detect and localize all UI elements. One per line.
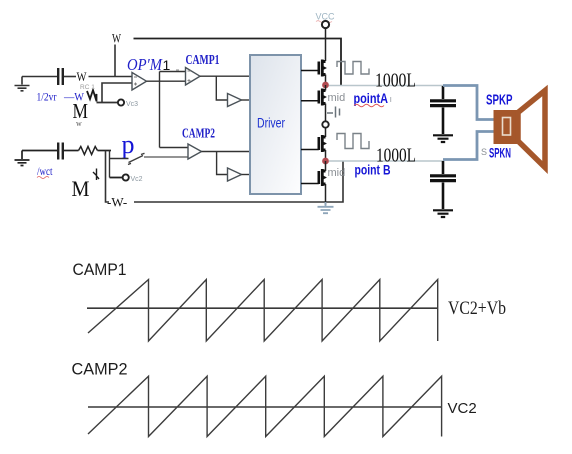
speaker SP1 horn [518, 91, 545, 168]
transistor Q2 (low side A) [301, 89, 327, 106]
wire U1 output down to CAMP2 [159, 72, 161, 148]
svg-text:ı: ı [390, 94, 393, 104]
resistor R2 zigzag [79, 147, 98, 155]
wire node down to -W- rail [106, 151, 110, 203]
ground CB [433, 210, 453, 217]
capacitor CA [430, 86, 456, 134]
svg-text:Driver: Driver [257, 116, 285, 131]
svg-text:W: W [77, 69, 88, 84]
svg-text:CAMP1: CAMP1 [186, 53, 220, 68]
transistor Q4 (low side B) [301, 169, 327, 186]
wire branch down to buffer B1 [216, 76, 227, 100]
buffer B2 [228, 168, 242, 181]
comparator CAMP2 [188, 144, 202, 159]
wire -W- rail to point B vertical [134, 161, 343, 202]
wire Q2 source down [325, 104, 327, 122]
svg-text:Vc3: Vc3 [126, 101, 138, 108]
wire from top W down to U1 input node [114, 45, 116, 77]
svg-text:VC2: VC2 [448, 400, 477, 417]
wire VCC stem [325, 29, 327, 62]
wire Q4 source to ground [325, 184, 327, 205]
wire point B net [329, 160, 443, 162]
comparator CAMP1 [186, 68, 201, 86]
svg-text:VC2+Vb: VC2+Vb [448, 298, 506, 319]
wire switch to CAMP2 lower input [144, 156, 188, 158]
wire C2 to resistor R2 [64, 150, 79, 152]
terminal mid supply [322, 121, 328, 127]
ground bridge (blue) [318, 202, 334, 213]
svg-text:RC 1: RC 1 [80, 84, 95, 91]
ground G2 (lower input) [15, 151, 30, 166]
capacitor C2 [58, 143, 63, 160]
wire branch down to buffer B2 [217, 152, 228, 175]
wire U1 + input elbow [102, 83, 132, 103]
svg-text:Vc2: Vc2 [131, 176, 143, 183]
svg-text:pointA: pointA [354, 90, 389, 106]
svg-text:-W-: -W- [107, 195, 127, 210]
wire to terminal Vc2 [110, 177, 123, 179]
red squiggle under pointA [354, 104, 384, 107]
waveform CAMP2 sawtooth [88, 376, 442, 436]
wire node to switch / Vc2 branch [110, 151, 129, 178]
CAMP1 polarity marks [176, 70, 191, 82]
capacitor C1 [58, 68, 63, 85]
transistor Q1 (high side A) [301, 60, 327, 77]
svg-text:SPKN: SPKN [489, 145, 511, 161]
red squiggle under /wct [37, 177, 49, 179]
wire point A net [329, 85, 443, 87]
wire Q2 drain to node A [325, 85, 327, 91]
wire terminal to Q3 [325, 128, 327, 137]
svg-text:CAMP2: CAMP2 [72, 361, 128, 379]
speaker SP1 slot [503, 118, 511, 136]
terminal Vc2 [123, 174, 129, 180]
wire ground G1 to capacitor C1 [22, 76, 57, 78]
ground G1 (upper input) [15, 77, 30, 91]
op-amp U1 input polarity marks [134, 77, 137, 86]
node A red junction [322, 82, 329, 89]
svg-text:p: p [122, 130, 135, 159]
wire Q4 drain to node B [325, 161, 327, 171]
square wave icon A [337, 62, 369, 75]
svg-text:1: 1 [163, 57, 171, 73]
wire W to op-amp U1 inverting input [89, 76, 133, 78]
waveform CAMP1 baseline [87, 307, 438, 309]
wire B1 to Driver [242, 99, 251, 101]
svg-text:SPKP: SPKP [486, 92, 513, 109]
wire top rail from W to bridge [134, 39, 342, 86]
terminal Vc3 [118, 99, 124, 105]
wire Q1 source to mid node A [325, 75, 327, 86]
transistor Q3 (high side B) [301, 135, 327, 152]
svg-text:mid: mid [328, 167, 346, 179]
waveform CAMP1 sawtooth [88, 280, 438, 342]
wire CAMP1 output to Driver [200, 75, 250, 77]
svg-text:1000L: 1000L [375, 70, 416, 92]
op-amp U1 (OP M1) [132, 73, 147, 91]
Driver block U2 [250, 55, 301, 194]
speaker SP1 body [494, 110, 518, 144]
svg-text:CAMP2: CAMP2 [182, 127, 215, 142]
terminal VCC [322, 21, 329, 28]
svg-text:CAMP1: CAMP1 [73, 261, 127, 279]
wire C1 to resistor label W [64, 76, 76, 78]
resistor RC1 zigzag [87, 90, 97, 102]
wire SPKP (blue thick) [443, 86, 494, 120]
svg-text:S: S [481, 147, 487, 157]
switch blade [128, 153, 145, 164]
red squiggle under VCC [316, 21, 332, 23]
svg-text:mid: mid [328, 92, 346, 104]
svg-text:1000L: 1000L [376, 145, 416, 167]
svg-text:W: W [112, 32, 121, 46]
svg-text:OP′M: OP′M [127, 55, 163, 74]
wire from U1 vertical to CAMP2 upper input [160, 147, 189, 149]
wire Q3 source to node B [325, 150, 327, 161]
wire to CAMP1 inverting input [160, 71, 186, 73]
wire G2 to capacitor C2 [22, 150, 57, 152]
square wave icon B [337, 134, 369, 149]
wire U1 output to CAMP1 [147, 80, 186, 82]
wire SPKN (blue thick) [443, 132, 494, 160]
transistor mark (tiny, left of Vc2) [93, 169, 99, 181]
node B red junction [322, 158, 329, 165]
svg-text:M: M [72, 176, 90, 201]
wire CAMP2 output to Driver [202, 151, 251, 153]
buffer B1 [228, 94, 242, 107]
svg-text:1/2vr: 1/2vr [37, 90, 57, 104]
wire zigzag to terminal Vc3 [97, 102, 118, 104]
wire R2 to node [98, 150, 112, 152]
decoupling glyph (small cap marks) [327, 107, 340, 118]
waveform CAMP2 baseline [88, 406, 442, 408]
svg-text:w: w [76, 119, 82, 128]
wire B2 to Driver [242, 174, 251, 176]
ground CA [433, 135, 453, 142]
capacitor CB [430, 161, 456, 209]
